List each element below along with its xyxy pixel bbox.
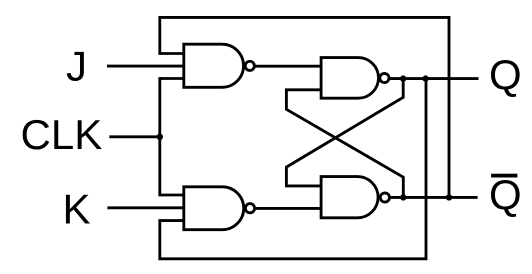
wire cross-couple Q to U4 input bbox=[286, 79, 403, 186]
nand gate U2 bubble bbox=[245, 204, 254, 213]
node Q output junction bbox=[400, 75, 406, 81]
wire U1 output to U3 input bbox=[256, 65, 322, 68]
nand gate U1 bubble bbox=[245, 61, 254, 70]
node Q feedback tap bbox=[422, 75, 428, 81]
svg-text:Q: Q bbox=[489, 171, 522, 218]
wire K input bbox=[107, 206, 183, 209]
wire J input bbox=[107, 65, 184, 68]
label Q-bar overline bbox=[491, 174, 517, 178]
nand gate U4 bubble bbox=[380, 193, 389, 202]
wire Q output bbox=[390, 77, 479, 80]
wire CLK input bbox=[109, 135, 160, 138]
nand gate U4 body bbox=[321, 177, 378, 218]
node Q-bar output junction bbox=[400, 194, 406, 200]
svg-text:Q: Q bbox=[489, 51, 522, 98]
wire U2 output to U4 input bbox=[256, 207, 322, 210]
nand gate U3 bubble bbox=[380, 73, 389, 82]
wire Q-bar output bbox=[390, 196, 478, 199]
svg-text:K: K bbox=[63, 186, 91, 233]
nand gate U2 body bbox=[184, 187, 244, 230]
node CLK junction bbox=[157, 134, 163, 140]
wire CLK vertical to gate inputs bbox=[160, 79, 184, 196]
wire Q-bar feedback top rail bbox=[160, 17, 449, 197]
svg-text:CLK: CLK bbox=[21, 111, 103, 158]
wire Q feedback bottom rail bbox=[160, 79, 426, 259]
node Q-bar feedback tap bbox=[446, 194, 452, 200]
nand gate U1 body bbox=[184, 44, 244, 87]
wire cross-couple Q-bar to U3 input bbox=[286, 90, 403, 198]
nand gate U3 body bbox=[321, 58, 378, 99]
svg-text:J: J bbox=[66, 43, 87, 90]
